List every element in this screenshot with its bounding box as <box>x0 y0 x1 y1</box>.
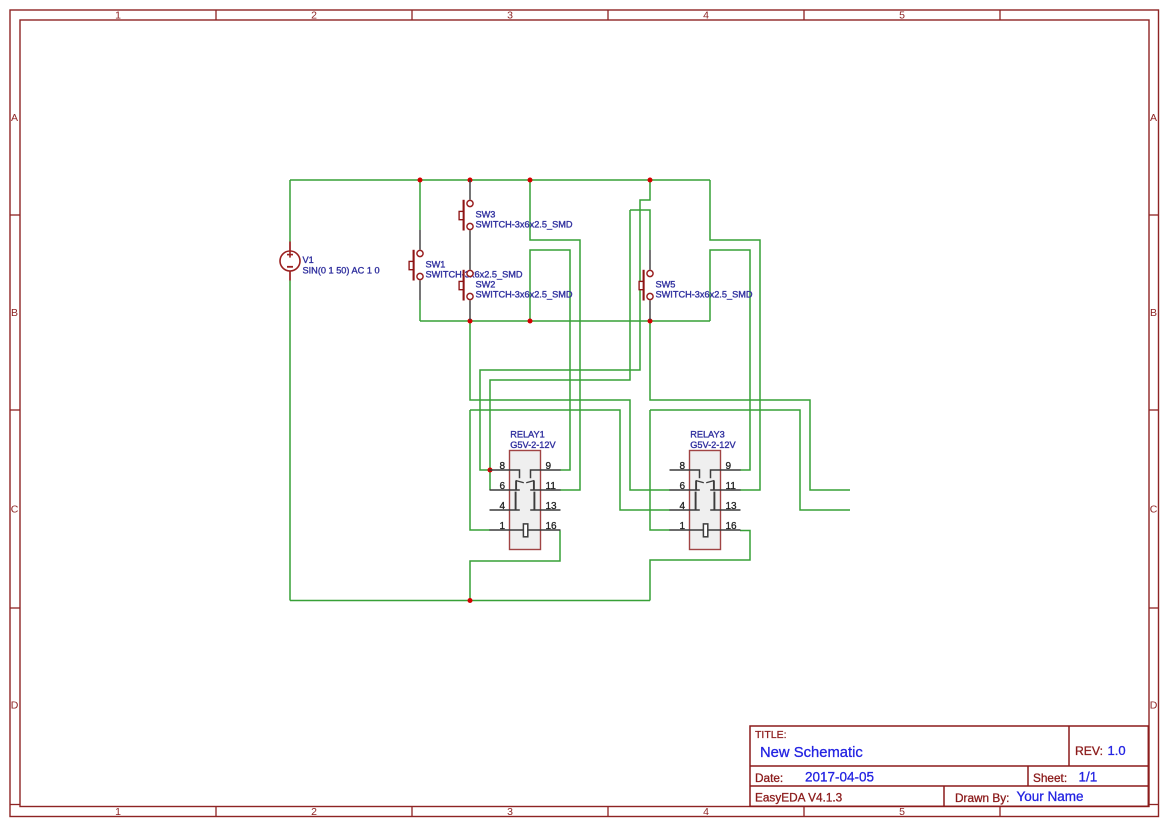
wire net n2 bottom-to-RELAY1-pin9 <box>530 250 570 470</box>
RELAY1 pin numbers <box>500 461 558 532</box>
wire net n6 RELAY1-pin1 branch <box>470 410 490 530</box>
svg-text:REV:: REV: <box>1075 744 1103 758</box>
svg-text:SWITCH-3x6x2.5_SMD: SWITCH-3x6x2.5_SMD <box>476 290 573 300</box>
svg-text:3: 3 <box>507 806 513 818</box>
svg-text:SWITCH-3x6x2.5_SMD: SWITCH-3x6x2.5_SMD <box>476 220 573 230</box>
svg-text:1.0: 1.0 <box>1108 743 1126 758</box>
junction (530,321) <box>528 319 533 324</box>
svg-text:Sheet:: Sheet: <box>1033 771 1067 785</box>
wire net n1 top-to-RELAY1-pin11 <box>530 180 580 490</box>
svg-text:Drawn By:: Drawn By: <box>955 791 1009 805</box>
svg-text:SIN(0 1 50) AC 1 0: SIN(0 1 50) AC 1 0 <box>303 266 380 276</box>
switch SW1 <box>409 230 423 300</box>
svg-text:1: 1 <box>115 806 121 818</box>
row ticks right edge <box>1149 215 1159 805</box>
column ticks bottom edge <box>216 807 1000 817</box>
row ticks left edge <box>10 215 20 805</box>
svg-text:RELAY3: RELAY3 <box>690 430 725 440</box>
row letters left <box>11 112 19 712</box>
svg-text:1: 1 <box>680 521 686 532</box>
wire top bus <box>290 179 710 181</box>
row letters right <box>1150 112 1158 712</box>
junction (650,321) <box>648 319 653 324</box>
svg-text:SW1: SW1 <box>426 260 446 270</box>
title block outline <box>750 726 1148 806</box>
svg-text:16: 16 <box>726 521 738 532</box>
wire riser to RELAY1 pin16 <box>470 531 560 601</box>
wire SW1 top stub <box>419 180 421 230</box>
svg-text:SWITCH-3x6x2.5_SMD: SWITCH-3x6x2.5_SMD <box>656 290 753 300</box>
svg-text:New Schematic: New Schematic <box>760 745 863 761</box>
column numbers top <box>115 10 905 22</box>
svg-text:SW5: SW5 <box>656 280 676 290</box>
relay RELAY3 body <box>690 451 721 550</box>
svg-text:2: 2 <box>311 10 317 22</box>
svg-text:SW2: SW2 <box>476 280 496 290</box>
svg-text:16: 16 <box>546 521 558 532</box>
relay RELAY1 body <box>510 451 541 550</box>
svg-text:6: 6 <box>680 481 686 492</box>
column ticks top edge <box>216 10 1000 20</box>
svg-text:Date:: Date: <box>755 771 783 785</box>
column numbers bottom <box>115 806 905 818</box>
svg-text:13: 13 <box>546 501 558 512</box>
svg-text:SW3: SW3 <box>476 210 496 220</box>
svg-text:9: 9 <box>546 461 552 472</box>
svg-text:EasyEDA V4.1.3: EasyEDA V4.1.3 <box>755 791 843 805</box>
svg-text:8: 8 <box>500 461 506 472</box>
svg-text:B: B <box>11 307 18 319</box>
svg-text:1: 1 <box>500 521 506 532</box>
svg-text:V1: V1 <box>303 255 314 265</box>
svg-text:Your Name: Your Name <box>1017 789 1084 804</box>
wire net n4 SW5-to-RELAY1-pin6 <box>490 210 630 490</box>
svg-text:RELAY1: RELAY1 <box>510 430 545 440</box>
svg-text:8: 8 <box>680 461 686 472</box>
svg-text:D: D <box>11 700 19 712</box>
svg-text:TITLE:: TITLE: <box>755 729 787 741</box>
svg-text:2017-04-05: 2017-04-05 <box>805 770 874 785</box>
svg-text:C: C <box>1150 504 1158 516</box>
junction (490,470) <box>488 468 493 473</box>
junction (470,321) <box>468 319 473 324</box>
junction (470,600.5) <box>468 598 473 603</box>
junction (650,180) <box>648 178 653 183</box>
svg-text:A: A <box>1150 112 1157 124</box>
wire net n3 top-to-RELAY1-pin8 <box>480 180 650 470</box>
svg-text:6: 6 <box>500 481 506 492</box>
svg-text:11: 11 <box>726 481 737 492</box>
svg-text:1: 1 <box>115 10 121 22</box>
wire net n5 bottom-to-RELAY3-pin6 <box>470 321 670 490</box>
svg-text:B: B <box>1150 307 1157 319</box>
svg-text:5: 5 <box>899 806 905 818</box>
junction (420,180) <box>418 178 423 183</box>
wire bottom bus V1 side <box>290 600 650 602</box>
svg-text:11: 11 <box>546 481 557 492</box>
svg-text:G5V-2-12V: G5V-2-12V <box>690 440 736 450</box>
svg-text:C: C <box>11 504 19 516</box>
svg-text:2: 2 <box>311 806 317 818</box>
wire switch bottom bus <box>420 320 710 322</box>
svg-text:4: 4 <box>500 501 506 512</box>
RELAY1 pins <box>490 470 561 537</box>
junction (470,180) <box>468 178 473 183</box>
switch SW2 <box>459 250 473 320</box>
svg-text:D: D <box>1150 700 1158 712</box>
wire V1 bottom down <box>289 281 291 601</box>
wire SW1 bottom stub <box>419 300 421 321</box>
svg-text:9: 9 <box>726 461 732 472</box>
svg-text:3: 3 <box>507 10 513 22</box>
wire net n7 bottom-to-stub <box>650 321 850 490</box>
svg-text:A: A <box>11 112 18 124</box>
wire net n8 stub right <box>650 410 850 510</box>
svg-text:4: 4 <box>703 806 709 818</box>
RELAY3 pins <box>670 470 741 537</box>
svg-text:G5V-2-12V: G5V-2-12V <box>510 440 556 450</box>
svg-text:13: 13 <box>726 501 738 512</box>
svg-text:4: 4 <box>703 10 709 22</box>
svg-text:5: 5 <box>899 10 905 22</box>
svg-text:1/1: 1/1 <box>1079 770 1098 785</box>
wire net n8 RELAY3-pin1 branch <box>650 410 670 530</box>
switch SW5 <box>639 250 653 320</box>
wire net n10 bottom-to-RELAY3-pin9 <box>710 250 750 470</box>
svg-text:4: 4 <box>680 501 686 512</box>
junction (530,180) <box>528 178 533 183</box>
wire V1 top to bus <box>289 180 291 242</box>
wire net n9 top-to-RELAY3-pin11 <box>710 180 760 490</box>
switch SW3 <box>459 180 473 250</box>
wire riser to RELAY3 pin16 <box>650 531 750 601</box>
wire net n6 to RELAY3-pin4 <box>470 410 670 510</box>
wire net n4 SW5-top-jog <box>630 210 650 250</box>
voltage source V1 <box>280 242 300 281</box>
svg-text:SWITCH-3x6x2.5_SMD: SWITCH-3x6x2.5_SMD <box>426 270 523 280</box>
RELAY3 pin numbers <box>680 461 738 532</box>
